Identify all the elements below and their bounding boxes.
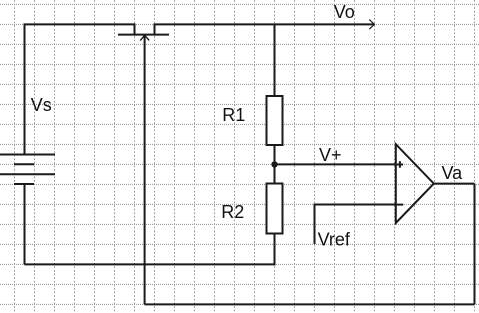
wire: Vref branch to op-amp - input xyxy=(315,205,396,245)
node V+ junction dot xyxy=(271,161,277,167)
transistor Q1 channel bar xyxy=(118,34,169,36)
svg-text:Va: Va xyxy=(442,163,464,183)
output arrow head Vo xyxy=(369,20,374,30)
svg-text:V+: V+ xyxy=(319,145,342,165)
wire: Q1 drain up and right to Vo output xyxy=(155,24,375,34)
battery Vs plate 2 short xyxy=(14,163,34,165)
svg-text:R1: R1 xyxy=(222,105,245,125)
svg-text:Vref: Vref xyxy=(318,230,351,250)
op-amp + input mark xyxy=(397,161,403,167)
wire: bottom return to R2 bottom xyxy=(25,263,276,265)
svg-text:Vs: Vs xyxy=(31,95,52,115)
wire: feedback up to Q1 gate xyxy=(144,35,146,305)
resistor R2 xyxy=(267,184,283,234)
battery Vs plate 3 long xyxy=(0,173,55,175)
wire: feedback bottom horizontal xyxy=(145,303,475,305)
op-amp - input mark xyxy=(397,204,404,206)
wire: feedback right vertical xyxy=(474,184,476,305)
wire: op-amp output to right edge xyxy=(434,183,475,185)
op-amp U1 triangle xyxy=(396,144,434,223)
wire: battery - down left side xyxy=(24,184,26,264)
battery Vs plate 1 long xyxy=(0,154,55,156)
wire: top to R1 lead xyxy=(274,24,276,96)
wire: R2 bottom lead xyxy=(274,234,276,266)
resistor R1 xyxy=(267,96,283,145)
battery Vs plate 4 short xyxy=(14,183,34,185)
svg-text:R2: R2 xyxy=(221,202,244,222)
svg-text:Vo: Vo xyxy=(334,2,355,22)
wire: node V+ to op-amp + input xyxy=(275,163,396,165)
transistor Q1 gate arrow xyxy=(140,35,149,40)
wire: R1 bottom to R2 top through node xyxy=(274,145,276,184)
wire: battery + up and along top to Q1 source xyxy=(25,24,135,155)
